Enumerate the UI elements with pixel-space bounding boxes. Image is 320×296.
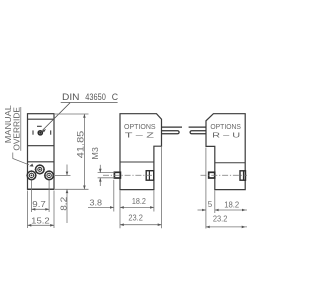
svg-text:3.8: 3.8 <box>90 198 103 207</box>
svg-text:5: 5 <box>208 200 213 209</box>
svg-text:23.2: 23.2 <box>213 214 228 223</box>
svg-text:T – Z: T – Z <box>125 130 155 139</box>
svg-text:18.2: 18.2 <box>224 200 240 209</box>
svg-text:C: C <box>112 92 119 102</box>
svg-text:43650: 43650 <box>85 92 106 102</box>
svg-text:OVERRIDE: OVERRIDE <box>12 107 22 151</box>
svg-text:18.2: 18.2 <box>132 197 146 206</box>
svg-text:R – U: R – U <box>212 130 240 139</box>
svg-text:41.85: 41.85 <box>76 131 87 159</box>
svg-text:M3: M3 <box>91 146 100 159</box>
svg-text:23.2: 23.2 <box>128 214 143 223</box>
svg-text:15.2: 15.2 <box>31 217 50 226</box>
svg-text:8.2: 8.2 <box>59 196 68 211</box>
svg-text:9.7: 9.7 <box>32 200 46 209</box>
svg-text:DIN: DIN <box>62 92 80 102</box>
